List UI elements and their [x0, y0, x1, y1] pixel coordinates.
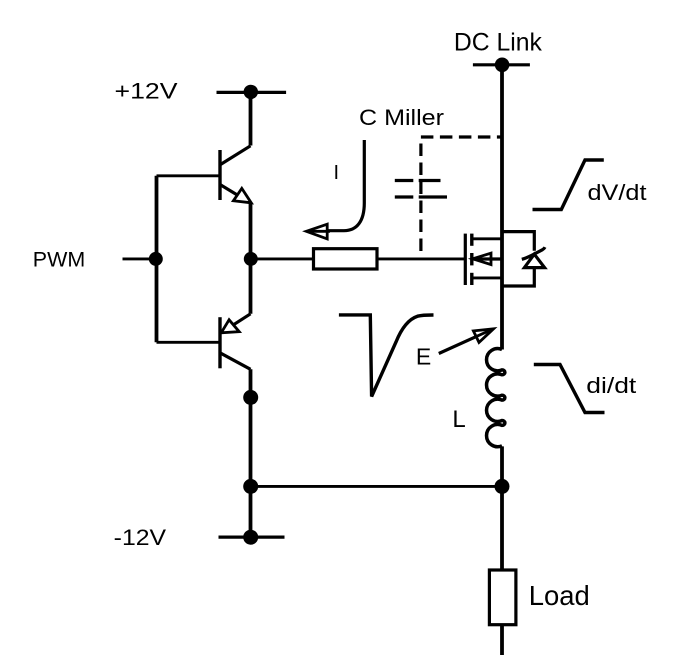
node lower-right junction dot — [495, 479, 510, 494]
mosfet M1 channel segment body — [470, 253, 473, 265]
mosfet M1 source stub — [472, 276, 502, 279]
transistor Q2 PNP base bar — [218, 317, 221, 368]
junction dot below Q2 collector — [243, 390, 258, 405]
wire bottom horizontal — [251, 485, 502, 488]
svg-text:dV/dt: dV/dt — [588, 180, 647, 205]
svg-text:L: L — [452, 406, 465, 433]
di/dt ramp symbol — [534, 365, 605, 413]
transistor Q2 PNP collector diagonal — [220, 353, 251, 370]
-12V supply terminal bar — [219, 535, 285, 538]
waveform E gate voltage dip curve — [339, 315, 434, 397]
mosfet M1 gate bar — [464, 234, 467, 285]
node PWM junction dot — [149, 252, 163, 266]
diode D1 zener cathode bar — [522, 247, 545, 259]
capacitor C Miller top plate — [395, 179, 441, 182]
capacitor C Miller dashed top wire — [421, 135, 502, 138]
wire main vertical DC link to inductor — [500, 65, 504, 350]
junction dot -12V — [243, 530, 258, 545]
mosfet M1 drain stub — [472, 237, 502, 240]
svg-text:di/dt: di/dt — [586, 373, 636, 398]
DC Link terminal bar — [473, 63, 530, 66]
wire Q2 collector vertical — [249, 369, 253, 537]
junction dot DC Link — [495, 58, 510, 73]
transistor Q1 NPN emitter with arrow — [220, 185, 251, 204]
wire emitter node to gate resistor — [251, 257, 314, 260]
svg-text:DC Link: DC Link — [454, 28, 542, 56]
mosfet M1 body arrow — [473, 253, 491, 264]
capacitor C Miller dashed vertical lead — [419, 137, 422, 259]
svg-text:E: E — [416, 343, 431, 369]
node emitter junction dot — [244, 252, 258, 266]
svg-text:-12V: -12V — [114, 525, 167, 550]
wire Q1 collector vertical — [249, 92, 253, 145]
svg-text:+12V: +12V — [115, 79, 178, 104]
svg-text:PWM: PWM — [33, 249, 85, 272]
diode D1 triangle — [524, 254, 544, 267]
arrow E pointing to source node — [439, 337, 476, 354]
resistor Load — [489, 570, 516, 625]
wire emitter node vertical — [249, 203, 253, 314]
diode D1 branch bottom — [502, 268, 534, 286]
transistor Q1 NPN base bar — [218, 150, 221, 200]
+12V supply terminal bar — [217, 91, 287, 94]
transistor Q2 PNP emitter with arrow — [221, 314, 251, 333]
wire Q2 base — [157, 341, 220, 344]
transistor Q1 NPN collector diagonal — [221, 146, 251, 165]
wire resistor to MOSFET gate — [377, 257, 464, 260]
mosfet M1 channel segment drain — [470, 234, 473, 246]
mosfet M1 channel segment source — [470, 273, 473, 285]
wire below load — [500, 625, 504, 655]
resistor Rg gate resistor — [314, 249, 378, 269]
capacitor C Miller bottom plate — [395, 195, 447, 198]
diode D1 branch top — [502, 232, 534, 251]
node lower-left junction dot — [243, 479, 258, 494]
dV/dt ramp symbol — [533, 160, 604, 210]
wire inductor to lower-right node and load — [500, 446, 504, 570]
svg-text:I: I — [334, 162, 340, 184]
svg-text:C Miller: C Miller — [359, 105, 444, 130]
wire Q1 base — [157, 174, 220, 177]
wire PWM input — [123, 257, 157, 260]
junction dot +12V — [244, 85, 258, 99]
arrow I gate current curved arrow — [326, 140, 364, 231]
svg-text:Load: Load — [529, 580, 590, 611]
wire left vertical base bus — [155, 176, 159, 342]
inductor L coils — [487, 349, 505, 447]
